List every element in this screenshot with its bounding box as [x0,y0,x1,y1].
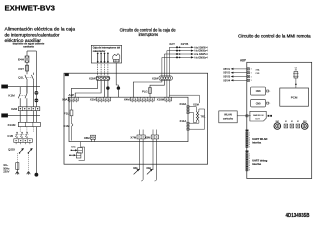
svg-text:K1M: K1M [64,124,70,128]
svg-text:1: 1 [249,153,250,155]
svg-text:6: 6 [249,165,250,167]
svg-text:X2M: X2M [11,107,18,111]
svg-text:X1M: X1M [90,98,96,102]
svg-text:E4H: E4H [18,58,24,62]
svg-text:Q2DI: Q2DI [8,148,15,152]
svg-text:Circuito de control de la MMI: Circuito de control de la MMI remota [238,34,311,39]
svg-text:4D134935B: 4D134935B [286,213,310,219]
svg-text:WLAN: WLAN [224,112,232,116]
svg-text:X11A: X11A [180,119,187,123]
svg-text:6: 6 [249,144,250,146]
svg-text:X8M: X8M [145,136,151,140]
svg-text:1: 1 [269,103,270,105]
svg-text:1: 1 [251,76,252,78]
svg-text:3: 3 [249,137,250,139]
svg-text:S2: S2 [291,121,293,123]
svg-text:X2M: X2M [89,77,96,81]
svg-text:interfaz: interfaz [252,142,262,145]
svg-text:7: 7 [249,146,250,148]
svg-text:sanitaria: sanitaria [23,45,34,49]
svg-text:Q1L: Q1L [18,76,24,80]
svg-text:SW1: SW1 [275,121,279,123]
svg-text:de interruptores/calentador: de interruptores/calentador [5,32,60,38]
svg-text:interfaz: interfaz [252,163,262,166]
svg-text:8: 8 [249,170,250,172]
svg-text:X4A: X4A [146,167,151,170]
svg-text:X2M: X2M [152,76,159,80]
svg-text:5: 5 [249,142,250,144]
svg-text:4: 4 [249,160,250,162]
svg-text:230V: 230V [3,170,9,174]
svg-text:2: 2 [249,156,250,158]
svg-text:A8P: A8P [240,59,246,63]
svg-text:Alimentación eléctrica de la c: Alimentación eléctrica de la caja [5,27,76,33]
svg-text:X1: X1 [295,69,297,71]
svg-text:TR1: TR1 [200,114,206,118]
svg-text:A1P: A1P [69,93,75,97]
svg-text:F1U: F1U [64,112,69,116]
svg-text:CN8: CN8 [256,90,261,93]
svg-text:7: 7 [249,167,250,169]
svg-text:1: 1 [251,69,252,71]
svg-text:PCM: PCM [291,95,298,99]
svg-text:X14M: X14M [8,123,16,127]
svg-text:X4M: X4M [124,98,130,102]
svg-text:X5A: X5A [256,69,260,72]
svg-text:X6M: X6M [84,136,90,140]
svg-text:X9A: X9A [62,98,67,102]
svg-text:X10A: X10A [193,104,199,107]
svg-text:X3A: X3A [133,167,138,170]
svg-text:EXHWET-BV3: EXHWET-BV3 [5,4,56,13]
svg-text:P2T: P2T [18,67,24,71]
svg-text:3: 3 [249,158,250,160]
svg-text:CN9: CN9 [256,102,261,105]
svg-text:X7M: X7M [130,136,136,140]
svg-text:1: 1 [251,73,252,75]
svg-text:X2Y: X2Y [169,42,175,46]
svg-text:interruptores: interruptores [139,32,159,37]
svg-text:OUT: OUT [255,118,260,120]
svg-text:cartucho: cartucho [223,117,234,121]
svg-text:X2YB: X2YB [181,42,189,46]
svg-text:X5Y/3: X5Y/3 [223,76,230,79]
svg-text:1: 1 [249,133,250,135]
svg-text:1: 1 [269,91,270,93]
svg-text:calentador: calentador [93,50,106,53]
svg-text:K1M: K1M [8,94,15,98]
svg-text:S2: S2 [285,121,287,123]
svg-text:F1B: F1B [8,134,14,138]
svg-text:X5Y/1: X5Y/1 [223,68,230,71]
svg-text:1: 1 [251,80,252,82]
svg-text:2: 2 [249,135,250,137]
svg-text:A la X2M/30a-4: A la X2M/30a-4 [194,56,208,59]
svg-text:4: 4 [249,140,250,142]
svg-text:X10M: X10M [157,98,165,102]
svg-text:SW1: SW1 [303,121,307,123]
svg-text:X10A: X10A [179,102,186,106]
svg-text:X5Y/2: X5Y/2 [223,72,230,75]
svg-text:MMI/SD IN: MMI/SD IN [253,115,264,117]
svg-text:C1: C1 [295,67,297,69]
svg-text:PLG: PLG [142,89,148,93]
svg-text:5: 5 [249,163,250,165]
svg-text:X5Y/4: X5Y/4 [223,79,230,82]
svg-text:S2: S2 [297,121,299,123]
